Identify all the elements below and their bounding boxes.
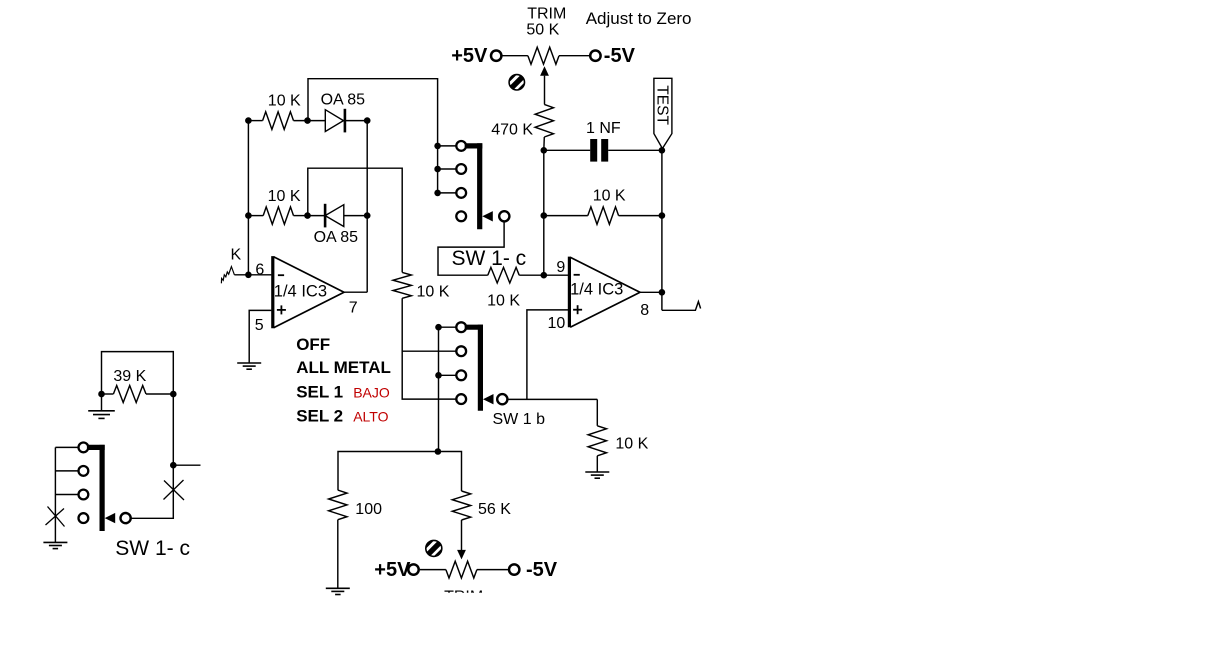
svg-text:10: 10 [548, 315, 566, 332]
svg-text:SEL 2: SEL 2 [296, 407, 343, 426]
svg-text:1 NF: 1 NF [586, 120, 621, 137]
svg-text:10 K: 10 K [593, 188, 626, 205]
svg-text:SW 1- c: SW 1- c [452, 247, 527, 270]
svg-text:10 K: 10 K [615, 436, 648, 453]
svg-text:39 K: 39 K [113, 368, 146, 385]
svg-text:K: K [231, 247, 242, 264]
svg-text:8: 8 [640, 302, 649, 319]
svg-text:10 K: 10 K [268, 188, 301, 205]
svg-text:ALL METAL: ALL METAL [296, 358, 391, 377]
svg-text:6: 6 [255, 261, 264, 278]
svg-text:100: 100 [355, 501, 382, 518]
svg-text:ALTO: ALTO [353, 409, 388, 425]
svg-text:-5V: -5V [604, 45, 636, 67]
svg-text:-5V: -5V [526, 559, 558, 581]
svg-text:SW 1- c: SW 1- c [115, 537, 190, 560]
svg-text:SEL 1: SEL 1 [296, 383, 343, 402]
svg-text:10 K: 10 K [417, 284, 450, 301]
svg-text:56 K: 56 K [478, 501, 511, 518]
svg-text:SW 1 b: SW 1 b [493, 411, 546, 428]
svg-text:OFF: OFF [296, 335, 330, 354]
svg-text:TEST: TEST [653, 85, 670, 125]
svg-text:470 K: 470 K [491, 122, 533, 139]
svg-text:OA 85: OA 85 [321, 92, 366, 109]
svg-text:10 K: 10 K [487, 293, 520, 310]
svg-text:5: 5 [255, 317, 264, 334]
svg-text:+5V: +5V [374, 559, 411, 581]
svg-text:7: 7 [349, 300, 358, 317]
svg-text:9: 9 [556, 259, 565, 276]
svg-text:BAJO: BAJO [353, 385, 390, 401]
svg-text:TRIM: TRIM [527, 6, 566, 23]
svg-text:+5V: +5V [451, 45, 488, 67]
svg-text:Adjust to Zero: Adjust to Zero [586, 9, 692, 28]
svg-text:10 K: 10 K [268, 93, 301, 110]
svg-text:OA 85: OA 85 [314, 229, 359, 246]
svg-text:50 K: 50 K [526, 22, 559, 39]
svg-text:1/4 IC3: 1/4 IC3 [570, 281, 623, 299]
svg-text:1/4 IC3: 1/4 IC3 [274, 282, 327, 300]
